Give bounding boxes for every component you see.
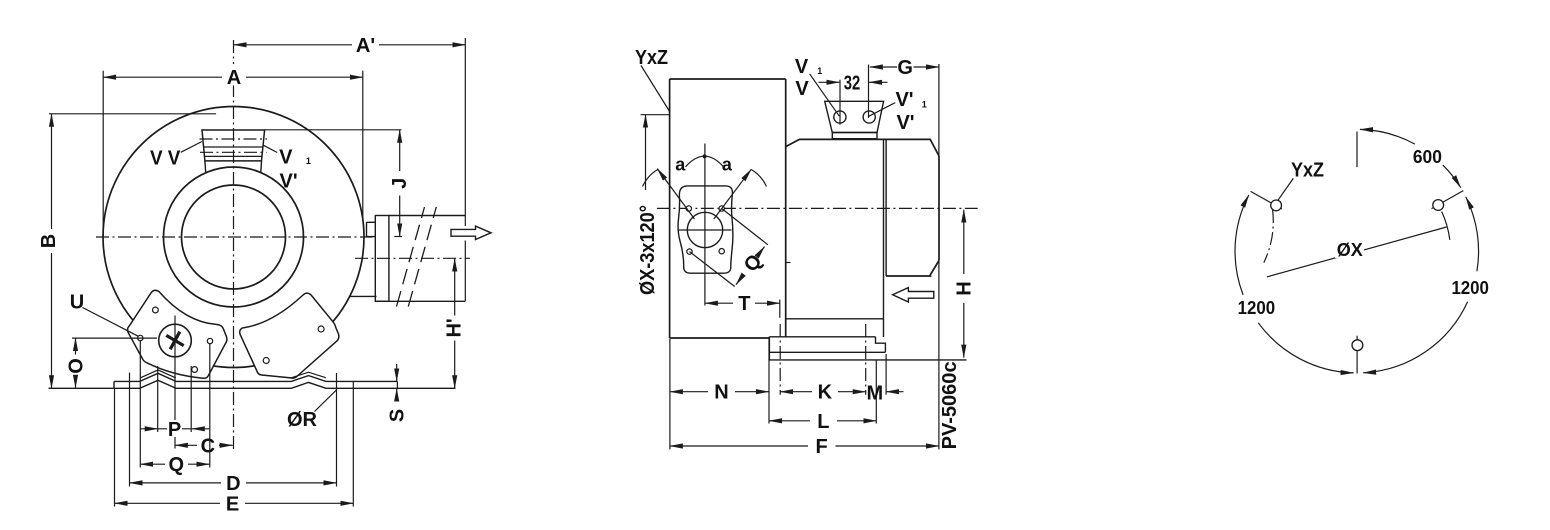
svg-text:V': V': [896, 112, 914, 134]
svg-text:P: P: [168, 419, 181, 441]
dim C: [175, 444, 197, 446]
dim E: [115, 502, 221, 504]
svg-text:C: C: [201, 435, 215, 457]
base bend chevron right: [292, 372, 326, 378]
motor / end-cover joint: [884, 139, 887, 337]
dim O extension (through U hole): [72, 337, 157, 339]
base plate top edge with bend kinks: [114, 373, 397, 381]
foot plate: [769, 337, 885, 360]
base plate bottom edge: [49, 380, 456, 388]
pipe break marks: [397, 207, 437, 307]
svg-text:K: K: [818, 382, 833, 404]
right foot bolt hole: [207, 338, 212, 343]
hole UL: [1271, 200, 1282, 211]
outer circle arc left (1200 span) part 2: [1235, 195, 1249, 295]
dim H: [963, 210, 965, 274]
svg-text:PV-5060c: PV-5060c: [939, 361, 961, 449]
right foot small hole lower: [263, 358, 269, 364]
leader U: [83, 308, 139, 337]
extension lines bottom (middle): [669, 339, 671, 450]
svg-text:E: E: [226, 493, 239, 515]
centerline vertical: [233, 40, 235, 450]
svg-text:O: O: [65, 358, 87, 374]
hole UR: [1433, 200, 1444, 211]
svg-text:A': A': [356, 35, 375, 57]
muffler port left: [834, 111, 846, 123]
angle arc stub right: [751, 170, 766, 187]
svg-text:V': V': [895, 89, 913, 111]
muffler trapezoid: [825, 101, 884, 132]
svg-text:U: U: [70, 292, 84, 314]
flange hole LR: [719, 249, 724, 254]
svg-text:H': H': [444, 318, 466, 337]
dim 32 verticals: [840, 65, 869, 125]
svg-text:32: 32: [844, 72, 861, 94]
leader V': [869, 103, 895, 117]
svg-text:D: D: [226, 473, 240, 495]
dim Q tick 1: [722, 209, 768, 245]
base right step: [396, 381, 398, 388]
hole axis diagonal right with arrow: [714, 169, 751, 219]
leader OR: [315, 390, 337, 412]
dim A label: [226, 64, 243, 86]
a-a arc: [686, 156, 724, 167]
trapezoid dash-dot line 1: [200, 138, 268, 140]
muffler base plate: [832, 133, 877, 139]
right extension line: [938, 64, 940, 449]
outlet pipe top: [389, 215, 465, 217]
svg-text:a: a: [675, 155, 686, 175]
svg-text:V: V: [279, 147, 293, 169]
motor bottom line: [786, 318, 884, 320]
outer circle arc right (1200 span) part 2: [1363, 302, 1467, 373]
left foot small hole top: [153, 307, 159, 313]
YxZ top line: [641, 114, 670, 116]
extension lines bottom: [114, 389, 116, 507]
dim Q tick 2: [690, 252, 735, 287]
outlet pipe centerline: [355, 257, 470, 259]
svg-text:L: L: [817, 411, 829, 433]
joint step line: [786, 262, 791, 264]
left foot bracket: [128, 290, 227, 378]
svg-text:V': V': [280, 171, 298, 193]
dim L: [769, 420, 810, 422]
inlet ring inner circle: [182, 185, 286, 289]
dim B top extension: [49, 113, 216, 115]
outlet neck step: [367, 222, 376, 236]
outer circle arc left (1200 span) part 1: [1258, 323, 1353, 373]
housing outline: [670, 79, 786, 338]
shaft circle with X: [159, 324, 192, 357]
svg-text:V: V: [795, 56, 809, 78]
right foot bracket: [240, 293, 339, 378]
dim Q arrows: [757, 247, 765, 257]
dim F: [670, 445, 808, 447]
flange hole LL: [687, 249, 692, 254]
muffler port right: [863, 111, 875, 123]
foot bottom line extended: [769, 359, 966, 361]
dim J extension: [265, 129, 402, 131]
svg-text:F: F: [815, 436, 827, 458]
svg-text:T: T: [738, 293, 750, 315]
svg-text:600: 600: [1413, 147, 1442, 167]
leader YxZ: [641, 66, 670, 112]
dim A line: [103, 76, 222, 78]
right foot small hole upper: [318, 326, 324, 332]
left foot small hole bottom: [192, 367, 198, 373]
dim G: [870, 66, 897, 68]
trapezoid dash-dot line 2: [200, 151, 267, 153]
angle vertex dot: [703, 154, 707, 158]
housing circle: [103, 107, 364, 368]
dim S arrows: [396, 364, 398, 381]
inlet arrow: [893, 288, 934, 302]
base left end cap: [113, 381, 115, 388]
upper-right hole tick: [1432, 191, 1464, 209]
hole axis diagonal left with arrow: [657, 169, 694, 219]
outer circle arc top-right (600 span) part 1: [1360, 129, 1415, 144]
svg-text:Q: Q: [169, 454, 185, 476]
dim N: [670, 391, 708, 393]
bolt circle arc near UR: [1442, 212, 1450, 240]
svg-text:YxZ: YxZ: [635, 47, 668, 69]
svg-text:1: 1: [817, 66, 822, 76]
svg-text:H: H: [954, 281, 976, 295]
inlet ring outer circle: [164, 167, 304, 307]
flange hole UR: [719, 206, 724, 211]
svg-text:ØR: ØR: [287, 409, 318, 431]
OX diameter line: [1267, 227, 1447, 277]
main centerline: [657, 207, 978, 209]
leader V ports: [810, 74, 840, 116]
label OX: [1335, 241, 1364, 258]
dim T: [705, 302, 733, 304]
dim A extension ticks: [103, 71, 363, 237]
scroll tangent line: [349, 295, 377, 297]
dim Q: [140, 463, 165, 465]
outlet pipe bottom: [377, 300, 466, 302]
svg-text:V: V: [795, 78, 809, 100]
dim OX-3x120 line: [645, 115, 647, 190]
flange hole UL: [686, 206, 691, 211]
svg-text:V V: V V: [150, 147, 181, 169]
outer circle arc right (1200 span) part 1: [1466, 197, 1479, 271]
motor top edge with chamfers: [786, 139, 939, 156]
top port trapezoid: [202, 130, 265, 161]
end cover right edge: [938, 156, 940, 261]
flange vertical centerline: [704, 144, 706, 306]
dim K: [780, 391, 812, 393]
dim A' line: [234, 44, 353, 46]
svg-text:B: B: [38, 234, 60, 248]
upper-left hole tick: [1251, 191, 1282, 209]
leader V V: [181, 142, 202, 153]
svg-text:S: S: [386, 409, 408, 422]
svg-text:1200: 1200: [1238, 298, 1276, 318]
svg-text:N: N: [714, 382, 728, 404]
svg-text:J: J: [389, 178, 411, 189]
svg-text:G: G: [897, 57, 913, 79]
dim 32 arrows: [819, 81, 840, 83]
outer circle arc 600 span part 2: [1443, 165, 1461, 188]
svg-text:ØX-3x120°: ØX-3x120°: [637, 205, 659, 295]
leader V: [264, 145, 278, 152]
dim J line: [399, 130, 401, 171]
svg-text:1: 1: [306, 156, 311, 166]
trapezoid fin line 2: [204, 155, 262, 157]
dim P: [141, 428, 158, 430]
flange bore: [687, 212, 722, 247]
angle arc stub left: [643, 170, 658, 187]
outlet flange: [375, 216, 389, 302]
trapezoid side extensions: [205, 161, 262, 173]
dim H' line: [454, 259, 456, 316]
dim O line: [75, 338, 77, 354]
left foot bolt hole (U): [138, 335, 143, 340]
pipe end / A' extension line: [464, 38, 466, 301]
bottom tick: [1356, 336, 1358, 374]
top tick: [1356, 132, 1358, 168]
bolt circle dash arc near UL: [1264, 210, 1273, 263]
dim D: [130, 482, 222, 484]
svg-text:1200: 1200: [1451, 278, 1489, 298]
hole bottom: [1352, 340, 1363, 351]
flange outline: [678, 186, 733, 273]
leader YxZ: [1278, 178, 1293, 200]
svg-text:a: a: [722, 155, 733, 175]
centerline horizontal: [96, 236, 373, 238]
base bend chevron left: [140, 370, 176, 378]
svg-text:1: 1: [922, 100, 927, 110]
svg-text:YxZ: YxZ: [1291, 160, 1324, 182]
flow direction arrow (outlet): [451, 226, 491, 239]
svg-text:A: A: [227, 67, 241, 89]
trapezoid fin line 1: [204, 146, 263, 148]
svg-text:M: M: [866, 383, 883, 405]
svg-text:ØX: ØX: [1337, 240, 1363, 260]
bore horizontal centerline: [678, 229, 732, 231]
dim B line: [51, 114, 53, 229]
end cover bottom with chamfer: [886, 261, 939, 277]
